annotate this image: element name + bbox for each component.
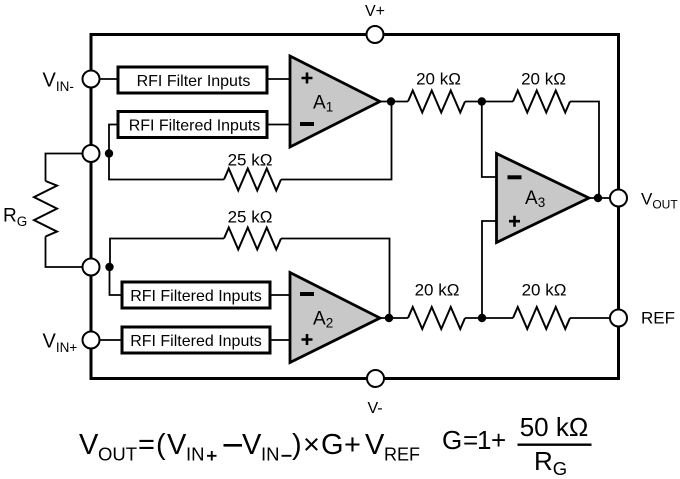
resistor R1 20k (A1 output to summing node)	[408, 91, 465, 113]
junction A2 output node	[385, 314, 393, 322]
resistor 25k (A2 feedback)	[224, 228, 281, 250]
A1 + input symbol	[302, 73, 313, 84]
svg-text:=: =	[463, 425, 478, 455]
A2 - input symbol	[300, 292, 314, 296]
A3 - input symbol	[508, 175, 522, 179]
terminal RG pin 1	[83, 145, 100, 162]
svg-text:1: 1	[477, 425, 491, 455]
RFI Filter Inputs block (A1 +)	[118, 67, 267, 93]
svg-text:RFI Filter Inputs: RFI Filter Inputs	[137, 73, 251, 90]
op-amp A2	[290, 273, 380, 363]
svg-text:=: =	[138, 429, 155, 461]
svg-text:50 kΩ: 50 kΩ	[520, 412, 589, 442]
svg-text:×: ×	[303, 429, 320, 461]
A3 + input symbol	[509, 216, 520, 227]
svg-text:RFI Filtered Inputs: RFI Filtered Inputs	[130, 333, 262, 350]
RFI Filtered Inputs block (A2 -)	[122, 282, 270, 308]
terminal V+ pin	[367, 26, 384, 43]
wire bottom summing node to A3 + input	[482, 221, 497, 318]
wire A1 output to first 20k resistor	[380, 101, 408, 103]
junction top summing node	[478, 97, 486, 105]
package outline (IC boundary)	[91, 35, 619, 379]
svg-text:RFI Filtered Inputs: RFI Filtered Inputs	[130, 288, 262, 305]
terminal RG pin 2	[83, 259, 100, 276]
wire RFI Filtered Inputs box to A2 - input	[270, 294, 290, 296]
wire VIN- pin to RFI Filter Inputs box	[91, 78, 118, 80]
svg-text:REF: REF	[384, 445, 420, 465]
wire RFI Filter Inputs box to A1 + input	[267, 78, 290, 80]
svg-text:20 kΩ: 20 kΩ	[521, 70, 566, 89]
svg-text:RFI Filtered Inputs: RFI Filtered Inputs	[129, 118, 261, 135]
A1 - input symbol	[300, 122, 314, 126]
svg-text:V-: V-	[367, 400, 382, 417]
svg-text:25 kΩ: 25 kΩ	[228, 208, 273, 227]
op-amp A3	[497, 154, 590, 243]
wire A3 output to VOUT pin	[589, 197, 610, 199]
wire between top 20k resistors	[465, 101, 513, 103]
wire RFI Filtered Inputs box to A2 + input	[270, 339, 290, 341]
wire RG2 node to 25k (A2 feedback)	[110, 239, 224, 268]
svg-text:20 kΩ: 20 kΩ	[415, 281, 460, 300]
svg-text:REF: REF	[641, 309, 675, 328]
svg-text:V+: V+	[365, 3, 385, 20]
wire R2 to A3 output node	[570, 102, 599, 199]
wire RG2 node to RFI Filtered Inputs box (A2 -)	[110, 267, 123, 295]
junction bottom summing node	[478, 314, 486, 322]
op-amp A1	[290, 56, 380, 147]
wire A2 output to third 20k resistor	[380, 317, 408, 319]
resistor 25k (A1 feedback)	[224, 169, 281, 191]
A2 + input symbol	[302, 334, 313, 345]
wire external resistor RG to RG pin2	[46, 237, 92, 268]
RFI Filtered Inputs block (A1 -)	[118, 112, 267, 138]
junction A3 output node	[594, 194, 602, 202]
junction RG2 node	[105, 263, 113, 271]
RFI Filtered Inputs block (A2 +)	[122, 327, 270, 353]
terminal VIN+ pin	[83, 332, 100, 349]
terminal REF pin	[610, 310, 627, 327]
junction A1 output node	[387, 97, 395, 105]
svg-text:V: V	[79, 429, 99, 461]
wire top summing node to A3 - input	[482, 102, 497, 178]
svg-text:20 kΩ: 20 kΩ	[416, 70, 461, 89]
terminal VOUT pin	[610, 190, 627, 207]
wire 25k to RG1 node	[109, 154, 224, 180]
svg-text:OUT: OUT	[98, 444, 137, 465]
svg-text:V: V	[365, 429, 385, 461]
svg-text:G: G	[442, 425, 462, 455]
wire 25k to A2 output vertical	[281, 239, 390, 319]
svg-text:+: +	[344, 429, 361, 461]
equation VOUT = (VIN+ - VIN-) x G + VREF	[79, 429, 420, 465]
wire RG1 node to RFI Filtered Inputs box (A1 -)	[109, 125, 118, 154]
resistor R3 20k (A2 output to summing node)	[408, 307, 465, 329]
svg-text:25 kΩ: 25 kΩ	[228, 151, 273, 170]
svg-text:IN: IN	[261, 444, 280, 465]
wire RFI Filtered Inputs box to A1 - input	[267, 124, 290, 126]
wire R4 to REF pin	[570, 317, 610, 319]
svg-text:IN: IN	[186, 444, 205, 465]
equation fraction bar	[518, 444, 592, 446]
svg-text:V: V	[167, 429, 187, 461]
svg-text:G: G	[321, 429, 344, 461]
terminal V- pin	[367, 370, 384, 387]
resistor R2 20k (A3 feedback)	[513, 91, 570, 113]
svg-text:(: (	[156, 429, 166, 461]
wire between bottom 20k resistors	[465, 317, 513, 319]
wire RG pin1 to external resistor RG	[46, 154, 92, 182]
svg-text:20 kΩ: 20 kΩ	[522, 281, 567, 300]
svg-text:V: V	[242, 429, 262, 461]
terminal VIN- pin	[83, 71, 100, 88]
wire VIN+ pin to RFI Filtered Inputs box	[91, 339, 122, 341]
resistor RG external gain resistor	[34, 181, 57, 237]
equation G = 1 + 50k/RG : left part	[442, 425, 506, 455]
svg-text:): )	[292, 429, 302, 461]
resistor R4 20k (to REF)	[513, 307, 570, 329]
wire A1 output feedback vertical	[281, 102, 392, 180]
svg-text:+: +	[491, 425, 506, 455]
junction RG1 node	[105, 149, 113, 157]
